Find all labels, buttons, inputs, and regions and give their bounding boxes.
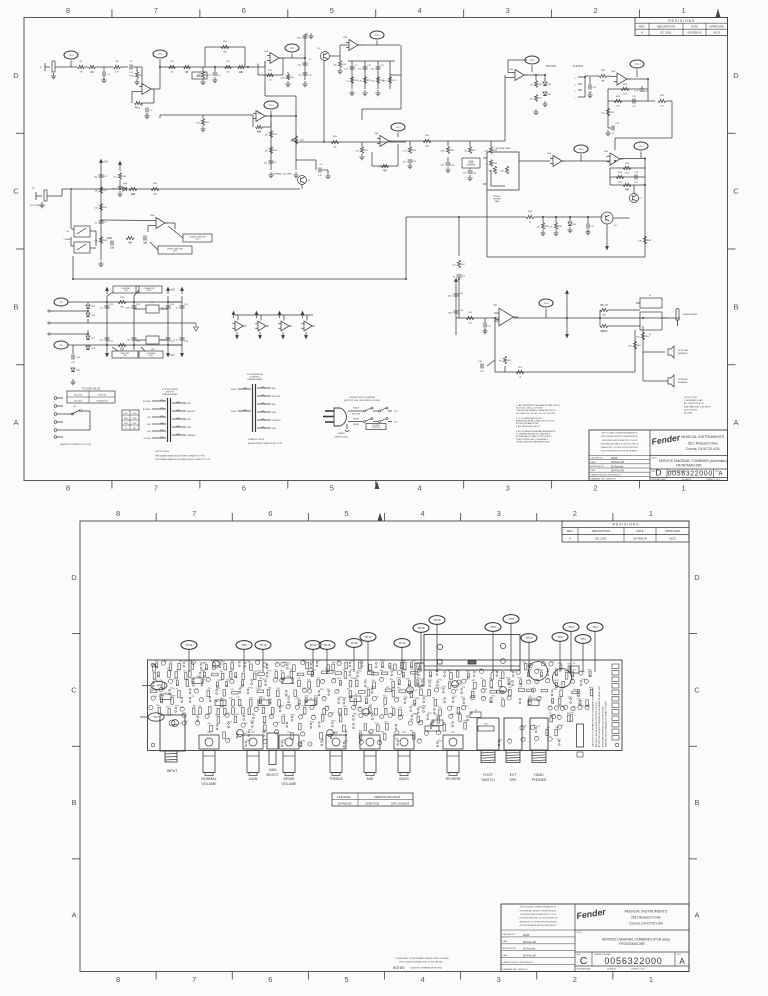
svg-text:C57: C57: [322, 679, 325, 681]
capacitor pcb: [337, 661, 341, 665]
wire: [330, 55, 341, 57]
svg-text:R31: R31: [610, 112, 615, 114]
op-amp U2B: [346, 40, 361, 51]
wire junction: [458, 216, 460, 218]
capacitor pcb: [579, 671, 583, 675]
pads pcb: [570, 698, 572, 700]
AC plug prongs: [325, 410, 334, 412]
svg-text:C33: C33: [184, 341, 189, 343]
pads pcb: [467, 716, 469, 718]
diode pcb: [411, 663, 413, 668]
resistor pcb: [168, 709, 171, 716]
pads pcb: [512, 681, 514, 683]
svg-text:CR7: CR7: [91, 338, 96, 340]
resistor pcb: [299, 723, 302, 730]
diode pcb: [161, 698, 163, 703]
ground: [349, 90, 354, 96]
ground wire green: [346, 424, 348, 429]
svg-text:68K: 68K: [601, 81, 605, 83]
svg-text:INTERNAL: INTERNAL: [678, 378, 689, 381]
svg-text:1. SEE SHEET 1 FOR PRIMARY WIR: 1. SEE SHEET 1 FOR PRIMARY WIRING, SWITC…: [395, 957, 450, 960]
pads pcb: [300, 742, 302, 744]
svg-text:C47: C47: [546, 679, 549, 681]
input jack J1 body: [160, 715, 185, 751]
pads pcb: [310, 723, 312, 725]
svg-text:TP3: TP3: [568, 625, 574, 629]
svg-text:R40: R40: [153, 183, 158, 185]
wire: [160, 114, 253, 116]
wire: [296, 141, 406, 143]
capacitor C4: [213, 73, 218, 75]
diode CR5: [86, 305, 90, 309]
svg-text:R34: R34: [618, 172, 623, 174]
svg-text:560: 560: [265, 134, 268, 136]
resistor pcb: [509, 689, 512, 696]
svg-text:.01: .01: [485, 163, 488, 165]
capacitor pcb: [578, 705, 582, 709]
transformer domestic secondary RED/WHT: [257, 395, 271, 397]
svg-text:C9: C9: [228, 713, 230, 715]
svg-text:CR33: CR33: [517, 678, 522, 680]
svg-text:J5: J5: [649, 334, 652, 336]
transistor Q1 pcb: [172, 720, 179, 727]
svg-text:.022: .022: [113, 176, 117, 178]
svg-text:.01: .01: [452, 276, 455, 278]
svg-text:R61: R61: [547, 727, 550, 729]
svg-text:R49: R49: [230, 669, 233, 671]
svg-text:J1: J1: [40, 67, 43, 69]
svg-text:C27: C27: [109, 341, 114, 343]
svg-text:R14: R14: [391, 707, 394, 709]
svg-text:C87: C87: [337, 661, 340, 663]
capacitor C3: [146, 108, 148, 113]
heatsink hole 2: [500, 643, 505, 648]
svg-text:DRAWN: WILSON CHRIS WILSON: DRAWN: WILSON CHRIS WILSON: [503, 961, 534, 964]
svg-text:C1: C1: [276, 730, 278, 732]
rail: [100, 166, 102, 260]
capacitor pcb: [395, 731, 399, 735]
tp arrow: [100, 160, 103, 167]
mounting hole: [615, 743, 619, 747]
resistor pcb: [560, 690, 563, 697]
capacitor pcb: [159, 688, 163, 692]
wire: [648, 100, 655, 102]
capacitor pcb: [479, 669, 483, 673]
svg-text:GRN/WHT: GRN/WHT: [272, 420, 281, 422]
svg-text:R2: R2: [290, 669, 292, 671]
svg-text:47K: 47K: [94, 190, 98, 192]
capacitor pcb: [325, 706, 329, 710]
svg-text:APPROVED BY:: APPROVED BY:: [503, 947, 517, 950]
test point callout TP9: [236, 641, 252, 650]
feedback network: [495, 319, 499, 321]
svg-text:REVERB: REVERB: [446, 777, 461, 781]
svg-text:1. LAST REFERENCE DESIGNATORS: 1. LAST REFERENCE DESIGNATORS USED: R88,…: [516, 404, 561, 407]
capacitor pcb: [310, 705, 314, 709]
svg-text:U6: U6: [437, 718, 439, 720]
connector oval P12: [54, 298, 68, 306]
capacitor pcb: [182, 713, 186, 717]
svg-text:PHONES: PHONES: [532, 778, 547, 782]
diode pcb: [520, 680, 522, 685]
ground: [533, 109, 538, 115]
svg-text:Q5: Q5: [459, 684, 461, 686]
svg-text:R54: R54: [507, 360, 512, 362]
svg-text:R27: R27: [237, 697, 240, 699]
pads pcb: [437, 742, 439, 744]
resistor pcb: [178, 663, 181, 670]
boxed label CLEAN CHNL SEL: [183, 234, 212, 242]
capacitor pcb: [335, 689, 339, 693]
svg-text:CONFIDENCE AND SHALL NOT BE DI: CONFIDENCE AND SHALL NOT BE DISCLOSED OR: [600, 442, 639, 445]
svg-text:R38: R38: [558, 696, 561, 698]
resistor pcb: [192, 708, 195, 715]
svg-text:C68: C68: [326, 706, 329, 708]
test point callout TP1: [575, 635, 591, 644]
wire: [458, 280, 460, 290]
svg-text:1: 1: [649, 975, 653, 984]
svg-text:R35: R35: [231, 689, 234, 691]
pads pcb: [216, 689, 218, 691]
svg-text:R35: R35: [625, 189, 630, 191]
svg-text:560: 560: [94, 176, 97, 178]
svg-text:100K: 100K: [425, 146, 430, 148]
svg-text:120V: 120V: [133, 413, 138, 415]
test point callout TP13: [394, 639, 410, 648]
resistor pcb: [178, 691, 181, 698]
svg-text:VR2: VR2: [251, 732, 255, 734]
resistor pcb: [448, 682, 451, 689]
svg-text:TP45: TP45: [437, 740, 441, 742]
wire junction: [542, 216, 544, 218]
svg-text:TP70: TP70: [267, 671, 271, 673]
svg-text:560: 560: [333, 147, 336, 149]
svg-text:B: B: [13, 302, 18, 311]
capacitor pcb: [408, 721, 412, 725]
diode pcb: [555, 682, 557, 687]
svg-text:Fender: Fender: [651, 432, 682, 446]
svg-text:4.7K: 4.7K: [115, 72, 120, 74]
svg-text:R21: R21: [208, 688, 211, 690]
pads pcb: [404, 698, 406, 700]
wire: [160, 66, 215, 68]
svg-text:SELECT: SELECT: [266, 773, 278, 777]
svg-text:TP50: TP50: [423, 696, 427, 698]
svg-text:560: 560: [616, 106, 619, 108]
ground: [101, 77, 106, 83]
transformer T1 secondary lead RED: [172, 418, 186, 420]
diode CR3: [568, 222, 572, 226]
svg-text:TP1: TP1: [580, 637, 586, 641]
resistor pcb: [217, 717, 220, 724]
tp arrow: [119, 162, 122, 169]
svg-text:DRIVE: DRIVE: [284, 777, 296, 781]
capacitor pcb: [169, 679, 173, 683]
resistor R45: [129, 187, 137, 190]
wire: [151, 88, 160, 90]
svg-text:CR57: CR57: [203, 663, 208, 665]
wire: [215, 66, 248, 68]
transformer domestic secondary RED: [257, 403, 271, 405]
resistor pcb: [450, 673, 453, 680]
svg-text:CLEAN: CLEAN: [64, 238, 71, 241]
resistor R38: [554, 223, 557, 230]
svg-text:C18: C18: [484, 689, 487, 691]
svg-text:CR3: CR3: [491, 696, 495, 698]
svg-text:TP15: TP15: [262, 679, 266, 681]
svg-text:R63: R63: [268, 687, 271, 689]
ground: [445, 167, 450, 173]
svg-text:R89: R89: [369, 705, 372, 707]
svg-text:VR4: VR4: [334, 732, 338, 734]
svg-text:B: B: [694, 798, 699, 807]
svg-text:DATABASE:: DATABASE:: [338, 802, 352, 806]
wire black: [348, 410, 363, 412]
resistor pcb: [339, 709, 342, 716]
svg-text:D: D: [694, 573, 700, 582]
svg-text:U10: U10: [532, 698, 535, 700]
svg-text:C34: C34: [581, 671, 584, 673]
wire: [459, 216, 526, 218]
tone stack frame: [351, 61, 353, 89]
resistor pcb: [153, 673, 156, 680]
svg-text:P15: P15: [394, 422, 397, 424]
resistor pcb: [459, 715, 462, 722]
svg-text:230V: 230V: [133, 418, 138, 420]
svg-text:R18: R18: [448, 670, 451, 672]
svg-text:R49: R49: [120, 348, 125, 350]
diode CR9: [71, 368, 75, 372]
resistor pcb: [501, 672, 504, 679]
wire diag: [107, 292, 113, 296]
transistor Q4 pcb: [407, 687, 414, 694]
resistor R27: [534, 95, 537, 102]
svg-text:C84: C84: [206, 714, 209, 716]
resistor pcb: [327, 665, 330, 672]
svg-text:B: B: [71, 798, 76, 807]
svg-text:R10: R10: [239, 72, 244, 74]
IC U1 pcb dip: [215, 700, 226, 706]
capacitor pcb: [531, 725, 535, 729]
svg-text:CR4: CR4: [123, 183, 128, 185]
wire: [620, 158, 645, 160]
resistor pcb: [386, 724, 389, 731]
pads pcb: [436, 670, 438, 672]
svg-text:RED: RED: [187, 403, 191, 405]
capacitor C9: [350, 67, 355, 69]
potentiometer REVERB: [443, 735, 463, 749]
IC U7 pcb dip: [160, 694, 171, 700]
capacitor pcb: [352, 705, 356, 709]
svg-text:C24: C24: [378, 741, 381, 743]
resistor pcb: [153, 665, 156, 672]
ground: [325, 173, 330, 179]
test point callout TP8: [151, 681, 167, 689]
pads pcb: [353, 715, 355, 717]
resistor pcb: [377, 725, 380, 732]
svg-text:1K: 1K: [176, 307, 179, 309]
capacitor pcb: [299, 715, 303, 719]
transistor Q7 pcb: [213, 661, 220, 668]
capacitor C50 filter: [529, 662, 548, 681]
svg-text:C47: C47: [288, 705, 291, 707]
diode pcb: [552, 698, 554, 703]
resistor R18: [376, 77, 379, 84]
svg-text:5: 5: [330, 6, 334, 15]
svg-text:R30: R30: [342, 670, 345, 672]
svg-text:TP10: TP10: [269, 105, 275, 107]
svg-text:C38: C38: [418, 739, 421, 741]
op-amp U2A: [267, 53, 282, 64]
resistor pcb: [474, 682, 477, 689]
svg-text:R16: R16: [235, 714, 238, 716]
mounting hole: [151, 743, 155, 747]
diode pcb: [555, 671, 557, 676]
resistor pcb: [417, 663, 420, 670]
wire junction: [569, 216, 571, 218]
svg-text:THIS DOCUMENT CONTAINS INFORMA: THIS DOCUMENT CONTAINS INFORMATION OF: [520, 906, 556, 909]
svg-text:TP36: TP36: [403, 697, 407, 699]
svg-text:BLU/WHT: BLU/WHT: [143, 409, 152, 411]
svg-text:TP54: TP54: [536, 726, 540, 728]
capacitor pcb: [311, 715, 315, 719]
resistor pcb: [168, 671, 171, 678]
wire junction: [566, 317, 568, 319]
IC U8 pcb dip: [192, 678, 203, 684]
svg-text:C63: C63: [464, 706, 467, 708]
svg-text:+15V: +15V: [170, 289, 176, 292]
node oval TP14: [525, 56, 539, 64]
diode pcb: [156, 663, 158, 668]
connector J1 input jack: [44, 63, 46, 71]
pads pcb: [349, 671, 351, 673]
wire: [607, 75, 614, 78]
capacitor pcb: [263, 663, 267, 667]
svg-text:TP16: TP16: [323, 643, 331, 647]
ground: [212, 77, 217, 83]
resistor pcb: [335, 672, 342, 675]
svg-text:C85: C85: [482, 696, 485, 698]
svg-text:R2: R2: [215, 715, 217, 717]
wire riser: [405, 217, 407, 279]
transformer T1 secondary lead RED: [172, 402, 186, 404]
svg-text:2330F.PCB: 2330F.PCB: [365, 802, 379, 806]
resistor pcb: [344, 708, 347, 715]
resistor pcb: [399, 709, 402, 716]
capacitor C29: [132, 338, 137, 340]
svg-text:TO CHASSIS GROUND W/ 6.3VAC IN: TO CHASSIS GROUND W/ 6.3VAC INPUT: [516, 433, 551, 436]
svg-text:C17: C17: [508, 696, 511, 698]
node oval TP13: [391, 123, 405, 131]
ground: [585, 229, 590, 235]
capacitor C30: [166, 306, 171, 308]
svg-text:DATE: DATE: [691, 24, 698, 28]
svg-text:R64: R64: [223, 41, 228, 43]
svg-text:TP37: TP37: [290, 715, 294, 717]
svg-text:2: 2: [594, 6, 598, 15]
resistor R31: [606, 108, 609, 116]
transformer T1 primary lead BLK: [152, 430, 166, 432]
svg-text:SERVICE DIAGRAM, COMBINED (sch: SERVICE DIAGRAM, COMBINED (schematic): [659, 459, 727, 463]
svg-text:TP2: TP2: [326, 689, 329, 691]
pads pcb: [200, 664, 202, 666]
boxed label POLARIZED: [136, 286, 162, 293]
diode pcb: [417, 680, 419, 685]
resistor pcb: [220, 701, 223, 708]
svg-text:R5: R5: [481, 678, 483, 680]
svg-text:R10: R10: [501, 698, 504, 700]
svg-text:C11: C11: [380, 65, 385, 67]
svg-text:R79: R79: [410, 669, 413, 671]
svg-text:R55: R55: [159, 680, 162, 682]
IC U10 pcb dip: [528, 700, 539, 706]
svg-text:C58: C58: [331, 712, 334, 714]
svg-text:C87: C87: [587, 705, 590, 707]
node TP oval: [153, 50, 167, 58]
pads pcb: [338, 698, 340, 700]
svg-text:C29: C29: [136, 341, 141, 343]
svg-text:J4: J4: [649, 295, 652, 297]
svg-text:R27: R27: [538, 98, 543, 100]
svg-text:TP77: TP77: [195, 715, 199, 717]
buffer rail: [235, 314, 313, 316]
transformer domestic secondary GRN: [257, 427, 271, 429]
svg-text:CHECKED BY:: CHECKED BY:: [591, 458, 604, 460]
resistor R49: [118, 343, 126, 346]
svg-text:CR38: CR38: [405, 679, 410, 681]
svg-text:7: 7: [192, 975, 196, 984]
svg-text:GAIN: GAIN: [269, 768, 277, 772]
resistor pcb: [401, 662, 404, 669]
wire: [168, 226, 183, 238]
ground: [194, 323, 199, 331]
svg-text:EXT: EXT: [510, 773, 517, 777]
svg-text:R12: R12: [489, 679, 492, 681]
svg-text:BLU: BLU: [148, 417, 152, 419]
resistor R42: [99, 204, 102, 211]
svg-text:2: 2: [573, 509, 577, 518]
svg-text:NOTES:: NOTES:: [393, 966, 405, 970]
svg-text:AUTODYNE: RISQUE DE CHOC ELECT: AUTODYNE: RISQUE DE CHOC ELECTRIQUE: [601, 706, 604, 747]
svg-text:FRONTMAN 25R: FRONTMAN 25R: [676, 463, 702, 467]
wire: [339, 45, 341, 56]
svg-text:TP66: TP66: [438, 680, 442, 682]
pads pcb: [452, 722, 454, 724]
svg-text:CR13: CR13: [554, 669, 559, 671]
wire: [165, 222, 175, 224]
svg-text:C86: C86: [455, 689, 458, 691]
vertical4: [181, 296, 183, 350]
svg-text:C19: C19: [590, 226, 595, 228]
pads pcb: [189, 689, 191, 691]
resistor R20: [331, 140, 339, 143]
resistor R8: [201, 72, 204, 79]
pads pcb: [547, 671, 549, 673]
wire junction: [295, 141, 297, 143]
svg-text:C70: C70: [182, 713, 185, 715]
svg-text:WHITE: WHITE: [353, 419, 360, 421]
svg-text:TP86: TP86: [418, 669, 422, 671]
diode pcb: [157, 672, 159, 677]
resistor pcb: [242, 708, 245, 715]
svg-text:R50: R50: [317, 678, 320, 680]
svg-text:C4: C4: [218, 75, 222, 77]
svg-text:C75: C75: [560, 725, 563, 727]
potentiometer DRIVE: [279, 735, 299, 749]
wire junction: [544, 74, 546, 76]
pads pcb: [357, 672, 359, 674]
svg-text:REVERB TANK: REVERB TANK: [495, 147, 511, 150]
